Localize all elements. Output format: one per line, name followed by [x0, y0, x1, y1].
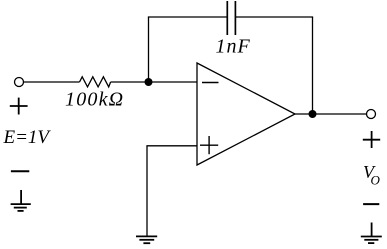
- wire: node A to inverting input pin: [149, 81, 198, 83]
- wire: feedback down to output node: [312, 17, 314, 114]
- ground (output): [361, 223, 382, 244]
- ground (source): [11, 190, 31, 211]
- op-amp U1 (triangle): [197, 63, 295, 165]
- capacitor C1 right plate: [234, 1, 236, 35]
- wire: non-inverting input down to ground: [146, 146, 148, 236]
- output polarity minus sign: [363, 203, 379, 205]
- wire: feedback rail left segment: [148, 16, 227, 18]
- wire: node A up to feedback rail: [148, 17, 150, 82]
- op-amp non-inverting input marker (plus): [200, 136, 218, 154]
- svg-text:VO: VO: [363, 162, 381, 188]
- source polarity plus sign: [10, 98, 28, 115]
- wire: feedback rail right segment: [235, 16, 313, 18]
- node A (junction dot at inverting input): [145, 78, 153, 86]
- input terminal (open circle): [15, 78, 24, 87]
- output terminal (open circle): [367, 110, 376, 119]
- svg-text:E=1V: E=1V: [3, 127, 52, 148]
- op-amp inverting input marker (minus): [202, 82, 219, 84]
- capacitor C1 left plate: [226, 1, 228, 35]
- wire: resistor to node A: [111, 81, 149, 83]
- output polarity plus sign: [363, 131, 380, 148]
- resistor R1 100kΩ (zigzag): [80, 77, 111, 87]
- wire: non-inverting input pin horizontal: [146, 145, 197, 147]
- source polarity minus sign: [11, 170, 29, 172]
- ground (op-amp non-inverting input): [136, 236, 157, 243]
- wire: input terminal to resistor: [24, 81, 80, 83]
- wire: op-amp output to output terminal: [295, 113, 366, 115]
- output node (junction dot): [309, 110, 317, 118]
- svg-text:1nF: 1nF: [216, 36, 251, 58]
- svg-text:100kΩ: 100kΩ: [65, 89, 124, 111]
